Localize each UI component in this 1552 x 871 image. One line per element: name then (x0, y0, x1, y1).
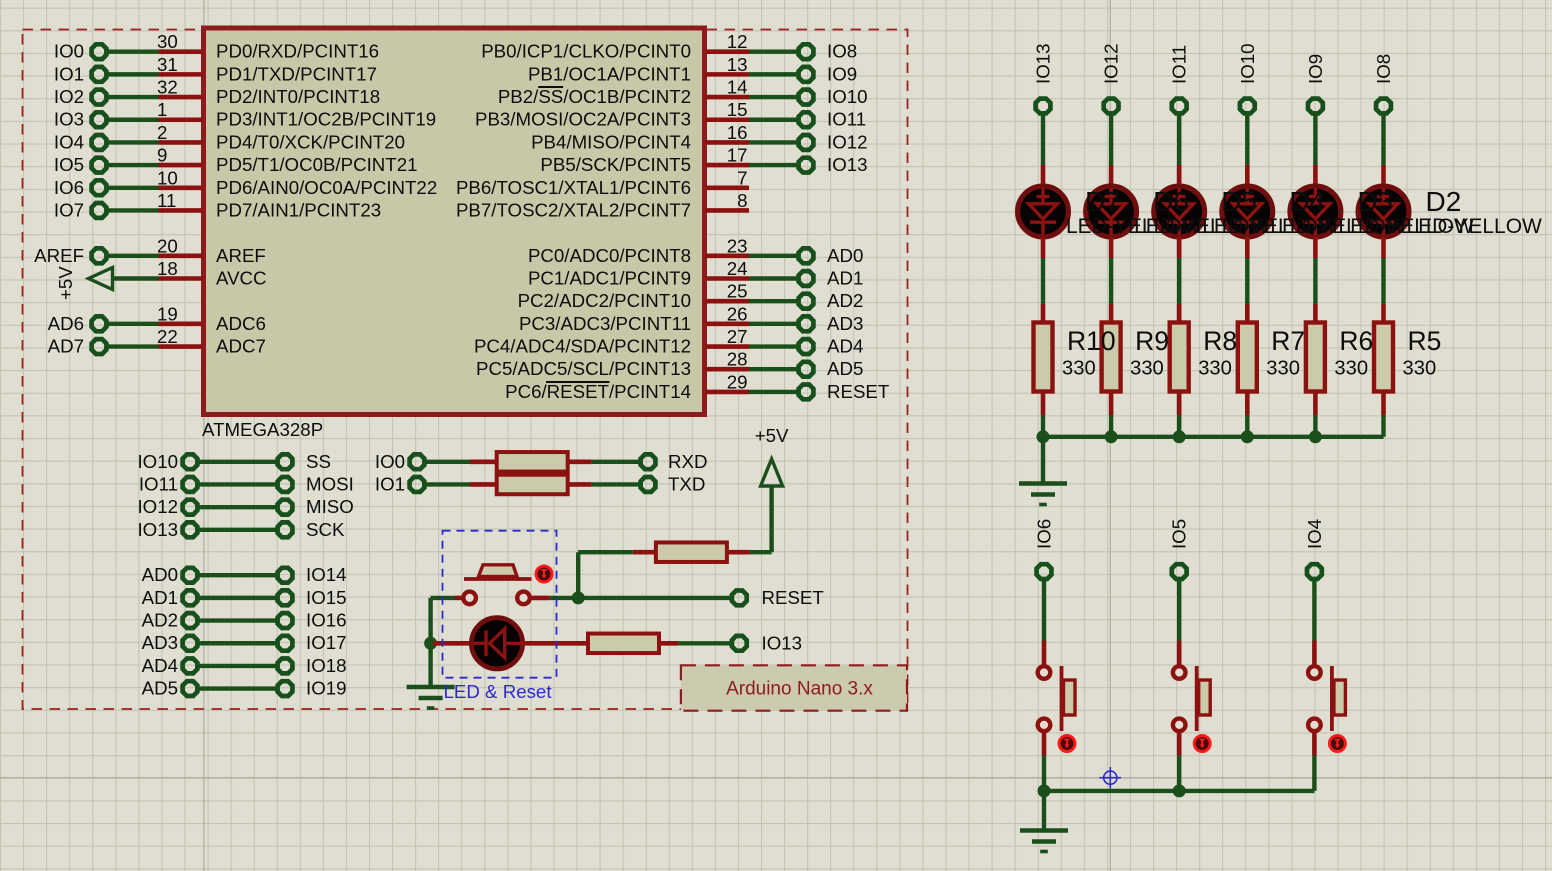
svg-text:27: 27 (727, 326, 748, 347)
svg-text:IO4: IO4 (1304, 519, 1325, 549)
svg-text:2: 2 (157, 122, 167, 143)
svg-text:26: 26 (727, 303, 748, 324)
svg-text:R6: R6 (1339, 326, 1373, 356)
svg-text:IO12: IO12 (137, 496, 178, 517)
svg-text:IO11: IO11 (1169, 45, 1190, 84)
svg-text:IO18: IO18 (306, 655, 347, 676)
svg-text:AVCC: AVCC (216, 268, 267, 289)
svg-text:IO9: IO9 (827, 63, 857, 84)
svg-text:LED & Reset: LED & Reset (444, 681, 553, 702)
svg-text:330: 330 (1198, 358, 1232, 380)
svg-text:AD2: AD2 (142, 610, 178, 631)
svg-text:23: 23 (727, 235, 748, 256)
svg-text:29: 29 (727, 371, 748, 392)
svg-text:ATMEGA328P: ATMEGA328P (202, 419, 323, 440)
svg-text:D4: D4 (1289, 186, 1325, 217)
svg-text:330: 330 (1403, 358, 1437, 380)
svg-text:IO11: IO11 (139, 473, 178, 494)
svg-text:IO5: IO5 (1169, 519, 1190, 549)
svg-text:MOSI: MOSI (306, 473, 354, 494)
svg-text:16: 16 (727, 122, 748, 143)
svg-text:AD0: AD0 (827, 245, 863, 266)
svg-text:TXD: TXD (668, 473, 705, 494)
svg-text:ADC6: ADC6 (216, 313, 266, 334)
svg-text:IO4: IO4 (54, 131, 84, 152)
svg-text:PB1/OC1A/PCINT1: PB1/OC1A/PCINT1 (528, 63, 691, 84)
svg-text:AREF: AREF (216, 245, 266, 266)
svg-text:PD2/INT0/PCINT18: PD2/INT0/PCINT18 (216, 86, 380, 107)
svg-text:IO13: IO13 (827, 154, 868, 175)
svg-text:28: 28 (727, 349, 748, 370)
svg-text:PD1/TXD/PCINT17: PD1/TXD/PCINT17 (216, 63, 377, 84)
svg-text:20: 20 (157, 235, 178, 256)
svg-text:PD4/T0/XCK/PCINT20: PD4/T0/XCK/PCINT20 (216, 131, 405, 152)
svg-text:IO16: IO16 (306, 610, 347, 631)
svg-text:R8: R8 (1203, 326, 1237, 356)
svg-text:IO12: IO12 (1101, 43, 1122, 84)
svg-text:AD7: AD7 (48, 336, 84, 357)
svg-text:R10: R10 (1067, 326, 1116, 356)
svg-text:+5V: +5V (755, 425, 789, 446)
svg-text:IO0: IO0 (375, 451, 405, 472)
svg-text:D2: D2 (1426, 186, 1462, 217)
svg-text:1: 1 (157, 99, 167, 120)
svg-text:PB7/TOSC2/XTAL2/PCINT7: PB7/TOSC2/XTAL2/PCINT7 (456, 199, 691, 220)
svg-text:IO10: IO10 (1237, 43, 1258, 84)
svg-text:AD5: AD5 (827, 358, 863, 379)
svg-text:IO2: IO2 (54, 86, 84, 107)
svg-text:PB5/SCK/PCINT5: PB5/SCK/PCINT5 (540, 154, 691, 175)
svg-text:IO0: IO0 (54, 41, 84, 62)
svg-text:PD6/AIN0/OC0A/PCINT22: PD6/AIN0/OC0A/PCINT22 (216, 177, 437, 198)
svg-text:RESET: RESET (762, 587, 824, 608)
svg-text:PD3/INT1/OC2B/PCINT19: PD3/INT1/OC2B/PCINT19 (216, 109, 436, 130)
svg-text:IO10: IO10 (137, 451, 178, 472)
svg-text:330: 330 (1266, 358, 1300, 380)
svg-text:330: 330 (1130, 358, 1164, 380)
svg-text:IO1: IO1 (375, 473, 405, 494)
svg-text:24: 24 (727, 258, 748, 279)
svg-text:AD3: AD3 (142, 632, 178, 653)
svg-text:AD1: AD1 (142, 587, 178, 608)
svg-text:IO6: IO6 (1034, 519, 1055, 549)
svg-text:D7: D7 (1085, 186, 1121, 217)
svg-text:IO17: IO17 (306, 632, 347, 653)
svg-text:MISO: MISO (306, 496, 354, 517)
svg-text:IO13: IO13 (1033, 43, 1054, 84)
svg-text:AD5: AD5 (142, 678, 178, 699)
svg-text:31: 31 (157, 54, 178, 75)
svg-text:IO6: IO6 (54, 177, 84, 198)
svg-text:AD2: AD2 (827, 290, 863, 311)
svg-text:18: 18 (157, 258, 178, 279)
svg-text:R7: R7 (1271, 326, 1305, 356)
svg-text:PC4/ADC4/SDA/PCINT12: PC4/ADC4/SDA/PCINT12 (474, 336, 691, 357)
svg-text:9: 9 (157, 145, 167, 166)
svg-text:PB3/MOSI/OC2A/PCINT3: PB3/MOSI/OC2A/PCINT3 (475, 109, 691, 130)
svg-text:14: 14 (727, 77, 748, 98)
svg-text:PC5/ADC5/SCL/PCINT13: PC5/ADC5/SCL/PCINT13 (476, 358, 691, 379)
svg-text:13: 13 (727, 54, 748, 75)
svg-text:22: 22 (157, 326, 178, 347)
svg-text:PD0/RXD/PCINT16: PD0/RXD/PCINT16 (216, 41, 379, 62)
svg-text:PC6/RESET/PCINT14: PC6/RESET/PCINT14 (505, 381, 691, 402)
svg-text:PC0/ADC0/PCINT8: PC0/ADC0/PCINT8 (528, 245, 691, 266)
svg-text:RESET: RESET (827, 381, 889, 402)
svg-text:AD4: AD4 (142, 655, 178, 676)
svg-text:330: 330 (1334, 358, 1368, 380)
svg-text:AD3: AD3 (827, 313, 863, 334)
svg-text:8: 8 (737, 190, 747, 211)
svg-text:PC2/ADC2/PCINT10: PC2/ADC2/PCINT10 (518, 290, 691, 311)
svg-text:PB6/TOSC1/XTAL1/PCINT6: PB6/TOSC1/XTAL1/PCINT6 (456, 177, 691, 198)
svg-text:IO8: IO8 (827, 41, 857, 62)
svg-text:AD4: AD4 (827, 336, 863, 357)
svg-text:11: 11 (157, 190, 176, 211)
svg-text:R5: R5 (1408, 326, 1442, 356)
svg-text:+5V: +5V (55, 266, 76, 300)
svg-text:IO10: IO10 (827, 86, 868, 107)
svg-text:LED-YELLOW: LED-YELLOW (1407, 215, 1543, 238)
svg-text:15: 15 (727, 99, 748, 120)
svg-text:Arduino Nano 3.x: Arduino Nano 3.x (726, 679, 873, 700)
svg-text:D3: D3 (1357, 186, 1393, 217)
svg-text:IO8: IO8 (1373, 54, 1394, 84)
svg-text:IO12: IO12 (827, 131, 868, 152)
svg-text:IO13: IO13 (762, 632, 803, 653)
svg-text:PB0/ICP1/CLKO/PCINT0: PB0/ICP1/CLKO/PCINT0 (481, 41, 691, 62)
svg-text:AD6: AD6 (48, 313, 84, 334)
svg-text:30: 30 (157, 31, 178, 52)
svg-text:IO9: IO9 (1305, 54, 1326, 84)
svg-text:RXD: RXD (668, 451, 707, 472)
svg-text:12: 12 (727, 31, 748, 52)
svg-text:AD1: AD1 (827, 268, 863, 289)
svg-text:SCK: SCK (306, 519, 345, 540)
svg-text:PB2/SS/OC1B/PCINT2: PB2/SS/OC1B/PCINT2 (498, 86, 691, 107)
svg-text:IO11: IO11 (827, 109, 866, 130)
svg-text:SS: SS (306, 451, 331, 472)
svg-text:ADC7: ADC7 (216, 336, 266, 357)
svg-text:330: 330 (1062, 358, 1096, 380)
svg-text:PC3/ADC3/PCINT11: PC3/ADC3/PCINT11 (519, 313, 691, 334)
svg-text:IO7: IO7 (54, 199, 84, 220)
svg-text:PD5/T1/OC0B/PCINT21: PD5/T1/OC0B/PCINT21 (216, 154, 417, 175)
svg-text:PB4/MISO/PCINT4: PB4/MISO/PCINT4 (531, 131, 691, 152)
svg-text:PD7/AIN1/PCINT23: PD7/AIN1/PCINT23 (216, 199, 381, 220)
svg-text:PC1/ADC1/PCINT9: PC1/ADC1/PCINT9 (528, 268, 691, 289)
svg-text:IO14: IO14 (306, 564, 347, 585)
svg-text:AREF: AREF (34, 245, 84, 266)
svg-text:10: 10 (157, 167, 178, 188)
svg-text:IO5: IO5 (54, 154, 84, 175)
svg-text:25: 25 (727, 281, 748, 302)
svg-text:32: 32 (157, 77, 178, 98)
svg-text:7: 7 (737, 167, 747, 188)
svg-text:IO13: IO13 (137, 519, 178, 540)
svg-text:AD0: AD0 (142, 564, 178, 585)
svg-text:IO3: IO3 (54, 109, 84, 130)
svg-text:17: 17 (727, 145, 748, 166)
svg-text:19: 19 (157, 303, 178, 324)
svg-text:IO19: IO19 (306, 678, 347, 699)
svg-text:D5: D5 (1221, 186, 1257, 217)
svg-text:IO1: IO1 (54, 63, 84, 84)
svg-text:IO15: IO15 (306, 587, 347, 608)
svg-text:D6: D6 (1153, 186, 1189, 217)
svg-text:R9: R9 (1135, 326, 1169, 356)
